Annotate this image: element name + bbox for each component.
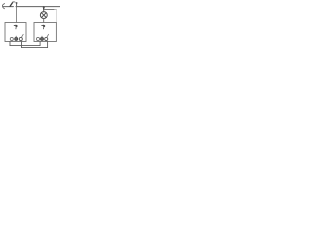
wire S1 drop b bbox=[21, 42, 23, 48]
switch S2 box bbox=[34, 23, 56, 42]
wire L segment B bbox=[16, 6, 60, 8]
node L break squiggle bbox=[2, 4, 4, 9]
wire down to switch S2 box bbox=[56, 10, 58, 23]
wire S2 drop a bbox=[39, 42, 41, 46]
wire S2 drop b bbox=[47, 42, 49, 48]
switch S1 lever hook blob bbox=[15, 25, 17, 27]
wire lamp drop bbox=[43, 7, 45, 10]
lamp X stroke 1 bbox=[41, 13, 46, 18]
switch S1 terminal circle a bbox=[10, 37, 13, 40]
background bbox=[0, 0, 60, 50]
switch S1 terminal circle b bbox=[15, 37, 18, 40]
wire correspondent upper bbox=[44, 9, 54, 11]
wire S1 drop a bbox=[9, 42, 11, 46]
switch S1 terminal circle c bbox=[19, 37, 22, 40]
lamp X stroke 2 bbox=[41, 13, 46, 18]
switch S2 contact stub b bbox=[41, 36, 43, 37]
lever tip tick bbox=[12, 1, 15, 4]
wire correspondent W1 bbox=[10, 45, 40, 47]
node terminal dot bbox=[16, 2, 18, 4]
switch S2 lever hook blob bbox=[43, 25, 45, 27]
node junction lamp/line bbox=[43, 6, 45, 8]
switch S1 box bbox=[5, 23, 26, 42]
lamp E1 bbox=[40, 12, 47, 19]
switch S2 lever hook bar bbox=[42, 24, 44, 26]
switch S2 terminal circle b bbox=[41, 37, 44, 40]
wire feed to switch S1 bbox=[16, 7, 18, 23]
switch S2 terminal circle a bbox=[36, 37, 39, 40]
wire lamp to S2 bbox=[43, 19, 45, 23]
switch S1 contact lever c bbox=[22, 34, 24, 37]
wire L segment A bbox=[3, 6, 13, 8]
wire contact stub bbox=[16, 3, 18, 7]
switch S2 contact lever c bbox=[47, 34, 49, 37]
switch S1 contact stub b bbox=[15, 36, 17, 37]
switch lever on line bbox=[10, 2, 13, 6]
wire correspondent W2 bbox=[22, 47, 48, 49]
switch S1 lever hook tail bbox=[15, 27, 17, 29]
switch S2 lever hook tail bbox=[43, 27, 45, 29]
switch S1 lever hook bar bbox=[14, 24, 16, 26]
switch S2 terminal circle c bbox=[45, 37, 48, 40]
